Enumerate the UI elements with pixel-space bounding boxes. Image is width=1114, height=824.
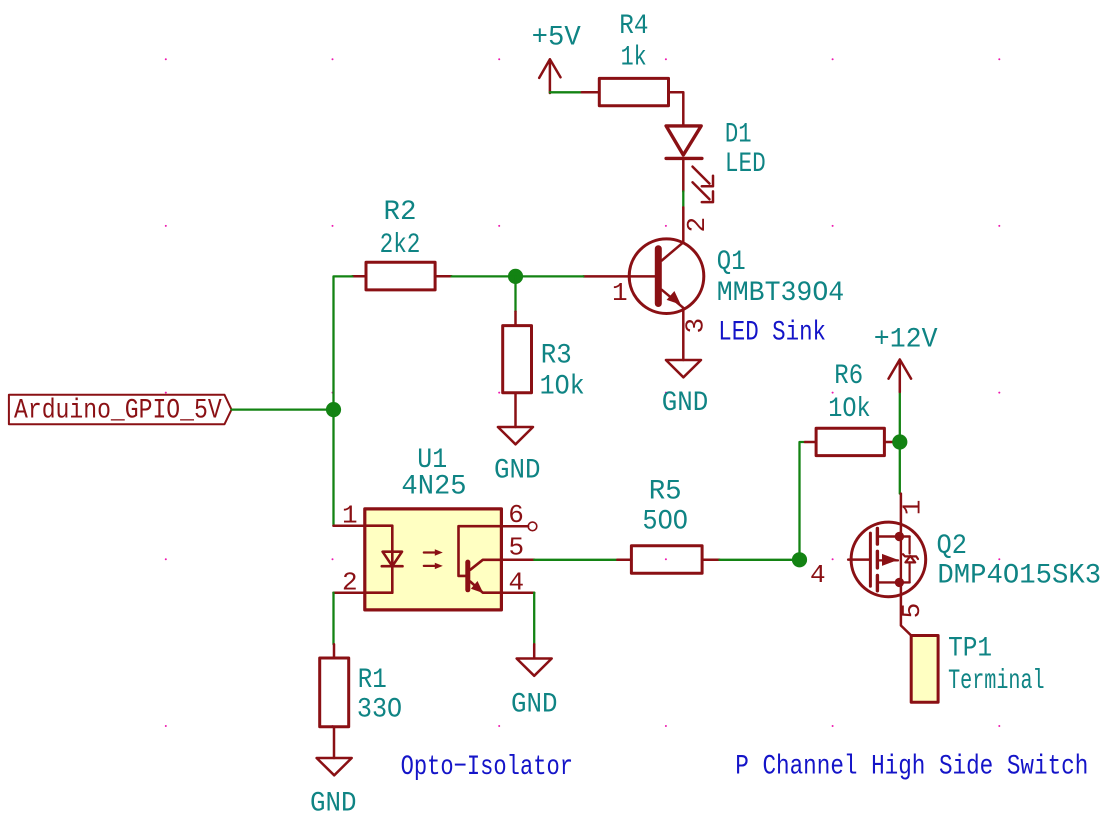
svg-text:MMBT39O4: MMBT39O4: [717, 278, 844, 309]
svg-text:DMP4O15SK3: DMP4O15SK3: [937, 561, 1101, 592]
svg-text:R5: R5: [649, 477, 682, 508]
svg-text:2: 2: [682, 217, 712, 233]
body diode: [908, 537, 910, 583]
svg-text:5OO: 5OO: [642, 507, 688, 538]
resistor R1: [320, 644, 402, 758]
svg-text:GND: GND: [511, 689, 558, 720]
internal LED of U1: [365, 526, 393, 593]
drain rail and dot: [879, 535, 910, 537]
internal phototransistor of U1: [459, 526, 502, 576]
svg-text:GND: GND: [662, 388, 709, 419]
svg-text:+5V: +5V: [532, 23, 581, 54]
light arrows inside U1: [424, 551, 436, 553]
wire junction down to U1 pin1: [332, 410, 334, 526]
resistor R5: [617, 477, 719, 574]
svg-text:4: 4: [509, 568, 525, 598]
svg-text:1Ok: 1Ok: [828, 394, 870, 425]
test point TP1: [911, 633, 1044, 702]
wire +12V junction down to Q2 drain: [899, 442, 901, 494]
text Opto-Isolator: [401, 752, 573, 783]
svg-text:2k2: 2k2: [380, 230, 421, 261]
svg-text:4N25: 4N25: [401, 471, 466, 502]
svg-text:5: 5: [509, 533, 525, 563]
opto-isolator U1: [334, 445, 537, 610]
pin 4: [501, 591, 534, 594]
svg-text:1: 1: [342, 500, 358, 530]
Q2 source junction dot: [895, 578, 904, 587]
svg-text:R6: R6: [834, 361, 863, 392]
svg-text:GND: GND: [310, 789, 357, 820]
svg-text:1: 1: [898, 500, 928, 516]
wire D1 to Q1 collector: [682, 191, 684, 207]
svg-text:LED: LED: [725, 149, 766, 180]
ground under R3: [494, 427, 541, 487]
svg-text:D1: D1: [725, 119, 752, 150]
wire U1 pin2 down to R1: [332, 593, 334, 645]
svg-text:Arduino_GPIO_5V: Arduino_GPIO_5V: [14, 396, 222, 427]
wire U1 pin5 to R5: [534, 559, 617, 561]
ground under U1 pin4: [511, 644, 558, 720]
resistor R6: [805, 361, 900, 456]
Q2 source pin down to TP1: [897, 582, 927, 635]
svg-text:Q2: Q2: [937, 531, 968, 562]
junction node R6/+12V/Q2 drain: [892, 434, 907, 449]
label +5V net: [532, 23, 581, 54]
svg-text:3: 3: [681, 318, 711, 334]
wire +5V to R4: [550, 91, 582, 93]
pin 2: [334, 591, 365, 594]
grid dots: [165, 58, 1001, 727]
power symbol +5V: [539, 59, 560, 93]
pin 1: [334, 524, 365, 527]
pin 5: [501, 559, 534, 562]
svg-text:TP1: TP1: [948, 633, 992, 664]
diode D1 LED: [666, 119, 766, 202]
pin 6 with NC circle: [501, 525, 528, 528]
junction node at label column: [326, 402, 341, 417]
resistor R4: [582, 11, 684, 125]
gate bar: [869, 533, 872, 586]
svg-text:1k: 1k: [621, 43, 647, 74]
svg-text:4: 4: [810, 560, 826, 590]
wire junction up to R6: [800, 442, 806, 560]
svg-text:P Channel High Side Switch: P Channel High Side Switch: [735, 752, 1088, 783]
wire U1 pin4 down to ground: [533, 593, 535, 645]
svg-text:5: 5: [897, 603, 927, 619]
svg-text:Opto−Isolator: Opto−Isolator: [401, 752, 573, 783]
svg-text:R3: R3: [541, 341, 572, 372]
svg-text:LED Sink: LED Sink: [718, 318, 826, 349]
resistor R2: [352, 197, 451, 290]
text P Channel High Side Switch: [735, 752, 1088, 783]
net label Arduino_GPIO_5V: [9, 395, 232, 427]
Q2 drain junction dot: [895, 532, 904, 541]
wire R2 left corner down to label junction: [334, 276, 353, 409]
svg-text:1: 1: [612, 278, 628, 308]
transistor Q1: [583, 207, 844, 360]
svg-text:33O: 33O: [357, 695, 402, 726]
source rail and dot: [879, 581, 910, 583]
resistor R3: [503, 276, 585, 427]
wire R2 right to junction: [452, 275, 516, 277]
svg-text:R1: R1: [358, 665, 387, 696]
D1 light emission arrows: [693, 167, 714, 187]
svg-text:Q1: Q1: [717, 247, 746, 278]
svg-text:Terminal: Terminal: [948, 666, 1045, 697]
wire R5 to junction: [719, 559, 799, 561]
wire R2 to Q1 base: [516, 275, 584, 277]
center vertical: [900, 537, 902, 583]
svg-text:R4: R4: [619, 11, 648, 42]
power symbol +12V: [874, 324, 938, 442]
svg-text:1Ok: 1Ok: [540, 372, 585, 403]
transistor Q2: [810, 494, 1101, 597]
svg-text:2: 2: [342, 567, 358, 597]
ground under R1: [310, 758, 357, 820]
svg-text:+12V: +12V: [874, 324, 938, 355]
svg-text:GND: GND: [494, 456, 541, 487]
svg-text:6: 6: [508, 500, 524, 530]
ground under Q1: [662, 360, 709, 419]
channel segments: [876, 528, 879, 590]
junction node R2/R3/Q1: [508, 269, 523, 284]
wire label to junction: [232, 408, 334, 410]
gate pin wire: [848, 558, 869, 561]
junction node R5/R6/Q2 gate: [792, 552, 807, 567]
arrow into channel: [879, 559, 898, 561]
svg-text:R2: R2: [384, 197, 417, 228]
